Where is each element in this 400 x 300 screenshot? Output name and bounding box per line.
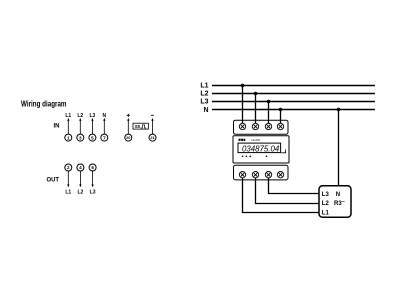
svg-text:4: 4 (79, 165, 82, 170)
svg-text:S0: S0 (135, 124, 141, 129)
svg-text:034875.04: 034875.04 (242, 144, 280, 154)
svg-text:L1: L1 (200, 83, 208, 90)
svg-text:L2: L2 (77, 113, 83, 119)
svg-text:3: 3 (79, 135, 82, 140)
svg-text:L3: L3 (90, 190, 96, 196)
svg-text:6: 6 (91, 165, 94, 170)
svg-text:5: 5 (91, 135, 94, 140)
svg-text:L3: L3 (200, 99, 208, 106)
svg-text:L1: L1 (65, 190, 71, 196)
svg-text:N: N (203, 107, 208, 114)
svg-text:L1: L1 (322, 210, 330, 216)
svg-text:OUT: OUT (47, 177, 60, 184)
svg-text:20: 20 (126, 136, 130, 140)
svg-text:L3: L3 (89, 113, 95, 119)
svg-text:7: 7 (103, 135, 106, 140)
svg-text:21: 21 (150, 136, 154, 140)
svg-text:LE-03d: LE-03d (252, 138, 261, 142)
svg-text:IN: IN (54, 123, 60, 130)
svg-text:L2: L2 (200, 91, 208, 98)
svg-text:L1: L1 (65, 113, 71, 119)
svg-text:2: 2 (67, 165, 70, 170)
svg-text:Wiring diagram: Wiring diagram (21, 100, 67, 109)
svg-text:L3: L3 (322, 192, 330, 198)
svg-text:1: 1 (67, 135, 70, 140)
svg-text:N: N (102, 113, 106, 119)
svg-text:L2: L2 (322, 201, 330, 207)
svg-text:L2: L2 (77, 190, 83, 196)
svg-text:N: N (336, 192, 340, 198)
